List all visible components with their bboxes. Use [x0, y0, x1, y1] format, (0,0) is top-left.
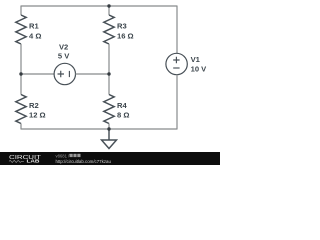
wire middle horizontal left of V2	[21, 73, 54, 75]
svg-text:V1: V1	[191, 55, 201, 64]
wire top rail	[21, 5, 177, 7]
svg-text:16 Ω: 16 Ω	[117, 32, 134, 41]
ground	[102, 129, 117, 149]
node junction bottom of R4	[107, 127, 110, 130]
svg-text:10 V: 10 V	[191, 64, 208, 73]
node junction left middle	[19, 72, 22, 75]
svg-text:LAB: LAB	[27, 159, 40, 164]
wire middle branch middle	[108, 44, 110, 95]
node junction middle	[107, 72, 110, 75]
wire middle branch upper lead	[108, 6, 110, 16]
svg-text:V2: V2	[59, 43, 68, 52]
wire left branch lower lead	[20, 124, 22, 130]
svg-text:12 Ω: 12 Ω	[29, 110, 46, 119]
watermark bar	[0, 152, 220, 165]
svg-text:v8681 /: v8681 /	[56, 153, 71, 158]
svg-text:R2: R2	[29, 101, 39, 110]
wire bottom rail	[21, 128, 177, 130]
wire right branch upper	[176, 6, 178, 54]
svg-text:5 V: 5 V	[58, 52, 70, 61]
node junction top of R3	[107, 4, 110, 7]
wire middle branch lower lead	[108, 124, 110, 130]
resistor R1	[16, 15, 26, 44]
watermark version text	[56, 153, 81, 158]
CircuitLab logo	[9, 155, 42, 164]
svg-text:R1: R1	[29, 22, 39, 31]
wire right branch lower	[176, 75, 178, 130]
svg-text:8 Ω: 8 Ω	[117, 110, 129, 119]
svg-text:http://circuitlab.com/c77kzau: http://circuitlab.com/c77kzau	[56, 159, 112, 164]
wire middle horizontal right of V2	[75, 73, 109, 75]
resistor R2	[16, 95, 26, 124]
wire left branch middle	[20, 44, 22, 95]
resistor R4	[104, 95, 114, 124]
svg-text:R3: R3	[117, 22, 127, 31]
wire left branch upper lead	[20, 6, 22, 16]
resistor R3	[104, 15, 114, 44]
voltage source V2	[54, 63, 75, 84]
svg-text:4 Ω: 4 Ω	[29, 32, 41, 41]
voltage source V1	[166, 53, 187, 74]
svg-text:R4: R4	[117, 101, 127, 110]
